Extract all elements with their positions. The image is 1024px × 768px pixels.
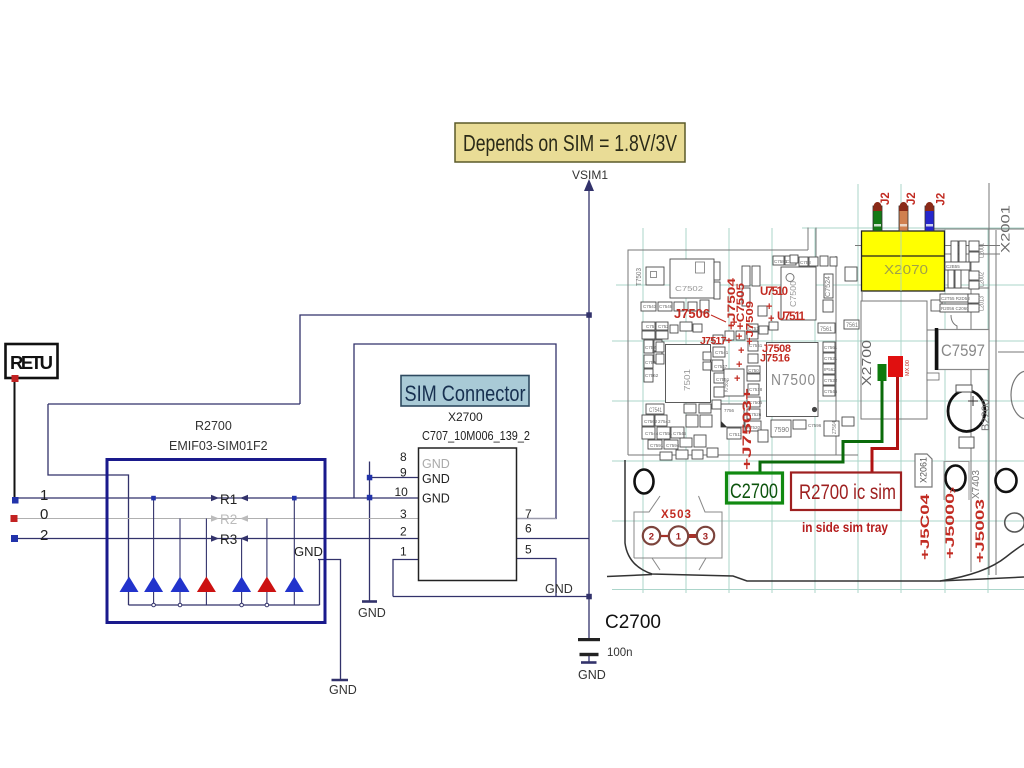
svg-text:MX.00: MX.00 — [905, 360, 911, 376]
svg-text:C750: C750 — [748, 368, 759, 373]
svg-text:+J7509: +J7509 — [745, 300, 756, 345]
svg-text:C751: C751 — [646, 324, 657, 329]
svg-text:GND: GND — [329, 683, 357, 697]
svg-text:+: + — [734, 373, 740, 385]
svg-text:in side sim tray: in side sim tray — [802, 520, 888, 535]
svg-text:T7503: T7503 — [634, 268, 643, 286]
svg-text:7: 7 — [525, 507, 532, 521]
svg-text:J7517+: J7517+ — [700, 335, 732, 347]
svg-text:+J5C04: +J5C04 — [920, 493, 932, 560]
svg-text:Depends on SIM = 1.8V/3V: Depends on SIM = 1.8V/3V — [463, 130, 678, 156]
svg-text:1: 1 — [676, 532, 682, 543]
svg-text:L2001: L2001 — [979, 243, 986, 258]
svg-text:J2: J2 — [936, 193, 948, 206]
svg-text:+: + — [766, 301, 772, 313]
svg-text:+J5000: +J5000 — [945, 493, 957, 559]
svg-text:C2700: C2700 — [605, 612, 661, 633]
svg-text:C2T55 R2D58: C2T55 R2D58 — [941, 296, 970, 301]
svg-text:C7544: C7544 — [645, 431, 659, 436]
svg-text:C7522: C7522 — [824, 378, 838, 383]
svg-text:3: 3 — [703, 532, 708, 543]
svg-text:+: + — [738, 345, 744, 357]
svg-text:C7548: C7548 — [659, 304, 673, 309]
svg-text:C7561: C7561 — [824, 345, 838, 350]
svg-text:7561: 7561 — [820, 326, 832, 333]
svg-text:L2002: L2002 — [979, 272, 986, 287]
svg-text:C7551: C7551 — [716, 377, 730, 382]
svg-text:2: 2 — [649, 532, 654, 543]
svg-text:J2: J2 — [880, 192, 892, 205]
svg-text:IP562: IP562 — [824, 367, 836, 372]
svg-text:0: 0 — [40, 506, 48, 523]
svg-text:+: + — [736, 331, 742, 343]
svg-text:3: 3 — [400, 507, 407, 521]
svg-text:C707_10M006_139_2: C707_10M006_139_2 — [422, 429, 530, 443]
svg-text:GND: GND — [422, 492, 450, 506]
svg-text:10: 10 — [395, 485, 409, 499]
svg-text:C7541: C7541 — [715, 350, 729, 355]
svg-text:7501: 7501 — [683, 368, 692, 391]
svg-text:C7562: C7562 — [645, 373, 659, 378]
svg-text:B2200: B2200 — [980, 399, 992, 431]
svg-text:L2013: L2013 — [979, 296, 986, 311]
svg-text:C7597: C7597 — [941, 341, 985, 360]
svg-text:C752: C752 — [658, 324, 669, 329]
svg-text:GND: GND — [422, 472, 450, 486]
svg-text:X2700: X2700 — [448, 410, 483, 424]
svg-text:C7551: C7551 — [659, 431, 673, 436]
svg-text:R1: R1 — [220, 492, 237, 507]
svg-text:X2700: X2700 — [859, 340, 874, 386]
svg-text:C7521: C7521 — [824, 356, 838, 361]
svg-text:+: + — [731, 317, 737, 329]
svg-text:J7506: J7506 — [674, 307, 710, 321]
svg-text:C758: C758 — [800, 260, 811, 265]
svg-text:Z7504: Z7504 — [832, 421, 838, 434]
svg-text:R2700: R2700 — [195, 419, 232, 433]
svg-text:R3: R3 — [220, 532, 237, 547]
svg-text:R2: R2 — [220, 512, 237, 527]
svg-text:1: 1 — [40, 487, 48, 504]
svg-text:8: 8 — [400, 450, 407, 464]
svg-text:1: 1 — [400, 545, 407, 559]
svg-text:C7562: C7562 — [644, 419, 658, 424]
svg-text:GND: GND — [545, 582, 573, 596]
svg-text:C7500: C7500 — [789, 280, 798, 307]
svg-text:J7516: J7516 — [760, 353, 790, 365]
svg-text:>: > — [948, 487, 959, 493]
svg-text:C7502: C7502 — [675, 286, 703, 293]
svg-text:100n: 100n — [607, 647, 633, 659]
svg-text:C7545: C7545 — [824, 389, 838, 394]
svg-text:7561: 7561 — [846, 323, 859, 329]
svg-text:C7591: C7591 — [650, 443, 664, 448]
svg-text:+: + — [768, 313, 774, 325]
svg-text:7590: 7590 — [774, 427, 789, 434]
svg-text:X7403: X7403 — [971, 470, 982, 499]
svg-text:GND: GND — [578, 668, 606, 682]
svg-text:+J5003: +J5003 — [975, 499, 987, 563]
svg-text:EMIF03-SIM01F2: EMIF03-SIM01F2 — [169, 439, 268, 453]
svg-text:C7524: C7524 — [825, 276, 832, 297]
svg-text:VSIM1: VSIM1 — [572, 168, 608, 182]
svg-text:R2700 ic sim: R2700 ic sim — [799, 481, 896, 504]
svg-text:C2700: C2700 — [730, 480, 778, 503]
svg-text:C7547: C7547 — [714, 364, 728, 369]
svg-text:27543: 27543 — [658, 419, 671, 424]
svg-text:C7543: C7543 — [643, 304, 657, 309]
svg-text:7756: 7756 — [724, 408, 735, 413]
svg-text:9: 9 — [400, 466, 407, 480]
svg-text:2: 2 — [40, 527, 48, 544]
svg-text:2: 2 — [400, 525, 407, 539]
svg-text:C7541: C7541 — [649, 408, 662, 414]
svg-text:N7500: N7500 — [771, 372, 816, 389]
svg-text:X2070: X2070 — [884, 262, 928, 277]
svg-text:GND: GND — [294, 544, 323, 559]
svg-text:C2B55: C2B55 — [946, 264, 960, 269]
svg-text:X503: X503 — [661, 509, 692, 521]
svg-text:U7511: U7511 — [777, 311, 806, 323]
svg-text:RETU: RETU — [10, 352, 53, 373]
svg-text:GND: GND — [358, 606, 386, 620]
svg-text:J2: J2 — [906, 192, 918, 205]
svg-text:C7596: C7596 — [808, 423, 822, 428]
svg-text:X2001: X2001 — [999, 205, 1013, 253]
svg-text:R2056 C2060: R2056 C2060 — [941, 306, 969, 311]
svg-text:5: 5 — [525, 543, 532, 557]
svg-text:+: + — [736, 359, 742, 371]
svg-text:+J7503+: +J7503+ — [740, 388, 754, 470]
svg-text:X2061: X2061 — [919, 457, 929, 483]
svg-text:U7510: U7510 — [760, 286, 788, 298]
svg-text:GND: GND — [422, 457, 450, 471]
svg-text:C7545: C7545 — [673, 431, 687, 436]
svg-text:SIM Connector: SIM Connector — [405, 381, 526, 406]
svg-text:C7594: C7594 — [666, 443, 680, 448]
svg-text:6: 6 — [525, 522, 532, 536]
